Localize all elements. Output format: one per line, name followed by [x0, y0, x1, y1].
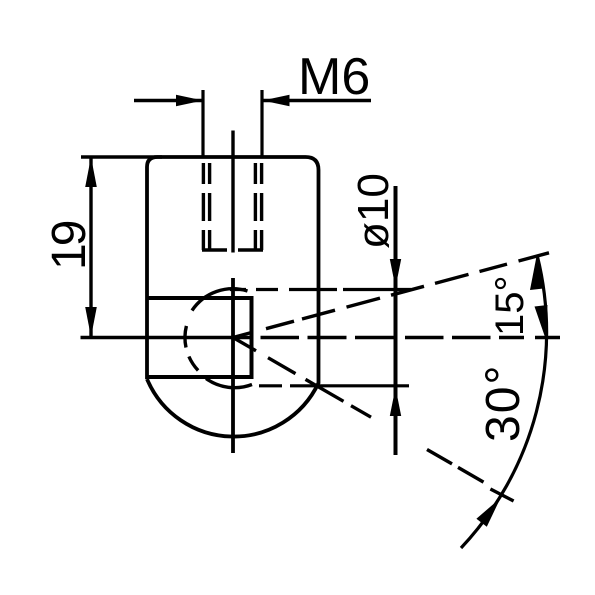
M6 extension line left [201, 90, 204, 158]
thread dashed line outer right [260, 163, 263, 250]
19 arrow down [85, 307, 97, 337]
body outline (eyelet fitting with rounded top and lobe bottom) [147, 157, 319, 437]
vertical centerline upper segment [231, 131, 234, 253]
horizontal centerline dashed right part [261, 336, 561, 339]
15 degree dashed line [233, 253, 549, 338]
phi10 arrow up [390, 388, 401, 417]
svg-text:30°: 30° [477, 363, 530, 442]
svg-text:15°: 15° [488, 276, 532, 337]
thread dashed line outer left [202, 163, 205, 250]
phi10 lower tangent extension segments [259, 384, 409, 387]
arc arrow at 30deg line [476, 498, 500, 527]
thread dashed line inner left [208, 163, 211, 250]
arc arrow at 0deg line [535, 305, 548, 337]
M6 extension line right [260, 90, 263, 158]
phi10 dimension line [394, 186, 398, 455]
svg-text:19: 19 [43, 221, 96, 270]
M6 dimension line right with arrow (leader under text) [263, 99, 371, 102]
phi10 upper tangent extension segments [230, 288, 411, 291]
horizontal centerline solid left part (also 19 dim extension) [81, 336, 254, 340]
19 dimension line [89, 157, 92, 338]
angular dimension arc [461, 256, 547, 548]
phi10 arrow down [390, 259, 401, 288]
19 arrow up [85, 157, 97, 187]
svg-text:ø10: ø10 [349, 173, 398, 249]
hole circle solid top arc [192, 289, 248, 311]
arc arrow at 15deg line [530, 257, 544, 291]
thread bottom dash left [202, 248, 227, 251]
hole circle solid bottom arc [206, 379, 252, 388]
thread bottom dash right [238, 248, 263, 251]
svg-text:M6: M6 [298, 48, 370, 106]
vertical centerline lower segment [231, 278, 235, 453]
M6 dimension line left with arrow [134, 99, 202, 102]
thread dashed line inner right [254, 163, 257, 250]
hole circle dashed left arc [185, 326, 198, 371]
block notch rectangle [147, 298, 252, 377]
19 dim extension top [81, 155, 162, 159]
30 degree dashed line [233, 338, 514, 502]
